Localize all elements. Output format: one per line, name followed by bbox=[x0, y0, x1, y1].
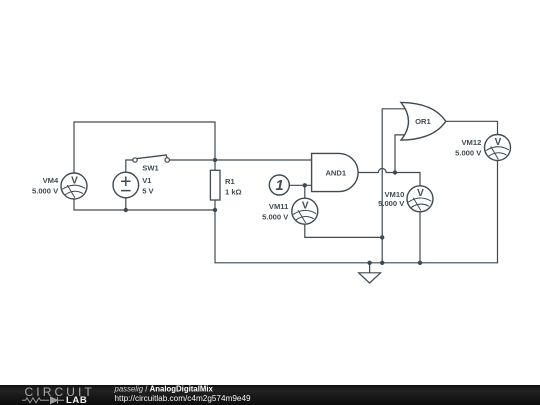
voltage source V1 bbox=[113, 172, 139, 198]
voltmeter VM4 bbox=[61, 173, 87, 199]
wire R1 bottom stub bbox=[214, 200, 216, 210]
svg-text:SW1: SW1 bbox=[142, 164, 159, 173]
svg-text:1 kΩ: 1 kΩ bbox=[225, 187, 242, 196]
switch SW1 bbox=[133, 155, 170, 162]
svg-text:LAB: LAB bbox=[66, 395, 87, 405]
footer bar bbox=[0, 385, 540, 405]
junction AND output / OR input B bbox=[393, 170, 397, 174]
svg-text:1: 1 bbox=[276, 178, 284, 194]
junction ground stem bbox=[367, 261, 371, 265]
junction V1 bottom bbox=[124, 208, 128, 212]
junction VM11 tap bbox=[303, 183, 307, 187]
svg-text:5.000 V: 5.000 V bbox=[455, 148, 482, 157]
junction net vertical on ground bus bbox=[380, 261, 384, 265]
digital one source bbox=[269, 175, 289, 195]
junction R1 bottom node bbox=[213, 208, 217, 212]
wire OR1 input B from AND output node bbox=[395, 135, 405, 173]
svg-text:R1: R1 bbox=[225, 177, 235, 186]
voltmeter VM12 bbox=[485, 135, 511, 161]
label R1 name and value bbox=[225, 177, 242, 196]
wire digital one output to AND1 input B bbox=[289, 184, 311, 186]
svg-text:5.000 V: 5.000 V bbox=[32, 187, 59, 196]
svg-text:V1: V1 bbox=[142, 176, 152, 185]
svg-text:http://circuitlab.com/c4m2g574: http://circuitlab.com/c4m2g574m9e49 bbox=[115, 394, 252, 403]
svg-text:AND1: AND1 bbox=[325, 169, 346, 178]
svg-text:5.000 V: 5.000 V bbox=[262, 212, 289, 221]
junction VM11 bottom on net vertical bbox=[380, 235, 384, 239]
junction VM10 bottom on ground bus bbox=[418, 261, 422, 265]
wire SW1 right terminal to AND1 input A bbox=[169, 159, 311, 161]
wire V1 top to SW1 left terminal bbox=[126, 160, 133, 172]
wire VM4 bottom / V1 bottom horizontal bbox=[74, 199, 215, 210]
wire R1 top stub bbox=[214, 160, 216, 170]
svg-text:VM11: VM11 bbox=[269, 202, 289, 211]
CircuitLab logo resistor and diode glyph bbox=[22, 397, 64, 404]
svg-text:5 V: 5 V bbox=[142, 187, 154, 196]
wire OR1 output to VM12 top bbox=[446, 121, 498, 134]
junction R1 top node bbox=[213, 158, 217, 162]
wire AND1 output to VM10 top with hop over net bbox=[358, 169, 420, 186]
voltmeter VM10 bbox=[407, 186, 433, 212]
AND gate AND1 bbox=[312, 153, 359, 191]
ground bbox=[359, 263, 381, 283]
voltmeter VM11 bbox=[292, 198, 318, 224]
wire net vertical to OR1 input A bbox=[382, 109, 404, 263]
svg-text:VM4: VM4 bbox=[43, 176, 59, 185]
wire VM11 top stub bbox=[304, 185, 306, 198]
svg-text:OR1: OR1 bbox=[415, 117, 431, 126]
OR gate OR1 bbox=[401, 102, 446, 140]
resistor R1 bbox=[210, 170, 220, 200]
svg-text:VM10: VM10 bbox=[384, 190, 404, 199]
wire VM10 bottom stub bbox=[419, 212, 421, 263]
wire VM4 top to node at R1 top bbox=[74, 122, 215, 173]
wire VM11 bottom to net vertical bbox=[305, 224, 382, 237]
label VM4 name and value bbox=[32, 176, 59, 196]
label VM12 name and value bbox=[455, 138, 482, 157]
svg-text:5.000 V: 5.000 V bbox=[378, 199, 405, 208]
label VM10 name and value bbox=[378, 190, 405, 208]
svg-text:VM12: VM12 bbox=[461, 138, 481, 147]
wire ground bus: R1 bottom down and across to VM12 bottom bbox=[215, 160, 498, 262]
label V1 name and value bbox=[142, 176, 154, 195]
svg-text:passelig / AnalogDigitalMix: passelig / AnalogDigitalMix bbox=[114, 385, 214, 394]
wire V1 bottom stub bbox=[125, 198, 127, 210]
label VM11 name and value bbox=[262, 202, 289, 221]
